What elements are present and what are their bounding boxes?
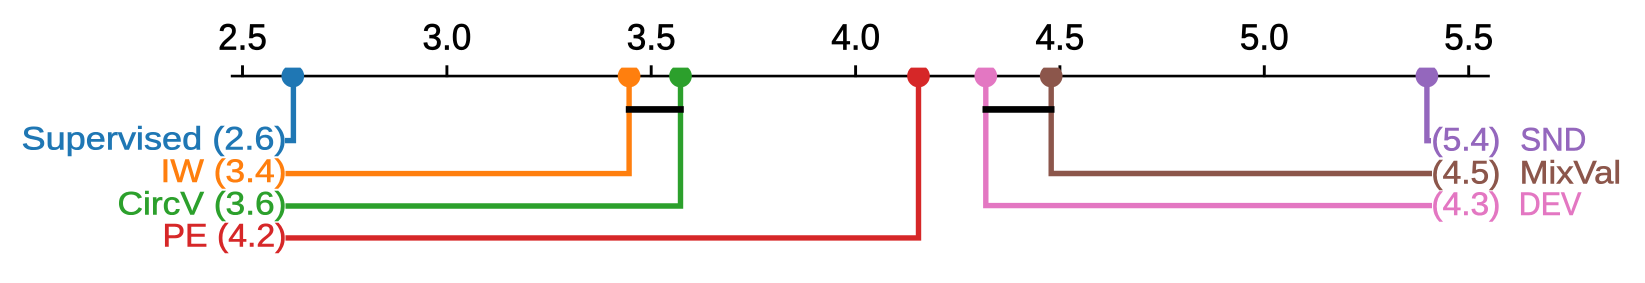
marker DEV (974, 68, 997, 88)
connector line CircV (286, 76, 681, 206)
connector line IW (286, 76, 630, 174)
clique bar IW-CircV (629, 106, 680, 113)
svg-text:3.0: 3.0 (423, 16, 472, 57)
tick 2.5 (218, 16, 267, 77)
svg-text:(5.4): (5.4) (1431, 121, 1500, 157)
svg-text:CircV (3.6): CircV (3.6) (118, 185, 287, 221)
connector line PE (286, 76, 919, 238)
clique bar DEV-MixVal (986, 106, 1051, 113)
marker MixVal (1040, 68, 1063, 88)
svg-text:(4.3): (4.3) (1431, 186, 1500, 222)
svg-text:DEV: DEV (1519, 186, 1582, 222)
tick 5.5 (1444, 16, 1493, 77)
marker SND (1416, 68, 1439, 88)
svg-text:Supervised (2.6): Supervised (2.6) (22, 120, 287, 156)
connector line DEV (986, 76, 1432, 206)
tick 4.5 (1036, 16, 1085, 77)
marker Supervised (281, 68, 304, 88)
tick 4.0 (831, 16, 880, 77)
tick 5.0 (1240, 16, 1289, 77)
svg-text:SND: SND (1520, 121, 1586, 157)
svg-text:5.5: 5.5 (1444, 16, 1493, 57)
marker IW (618, 68, 641, 88)
svg-text:2.5: 2.5 (218, 16, 267, 57)
marker CircV (669, 68, 692, 88)
marker PE (907, 68, 930, 88)
svg-text:4.0: 4.0 (831, 16, 880, 57)
connector line Supervised (285, 76, 293, 141)
connector line SND (1427, 76, 1431, 141)
svg-text:4.5: 4.5 (1036, 16, 1085, 57)
svg-text:5.0: 5.0 (1240, 16, 1289, 57)
tick 3.0 (423, 16, 472, 77)
axis line (231, 75, 1490, 78)
svg-text:IW (3.4): IW (3.4) (161, 153, 287, 189)
connector line MixVal (1051, 76, 1432, 174)
tick 3.5 (627, 16, 676, 77)
svg-text:3.5: 3.5 (627, 16, 676, 57)
svg-text:PE (4.2): PE (4.2) (163, 217, 287, 253)
